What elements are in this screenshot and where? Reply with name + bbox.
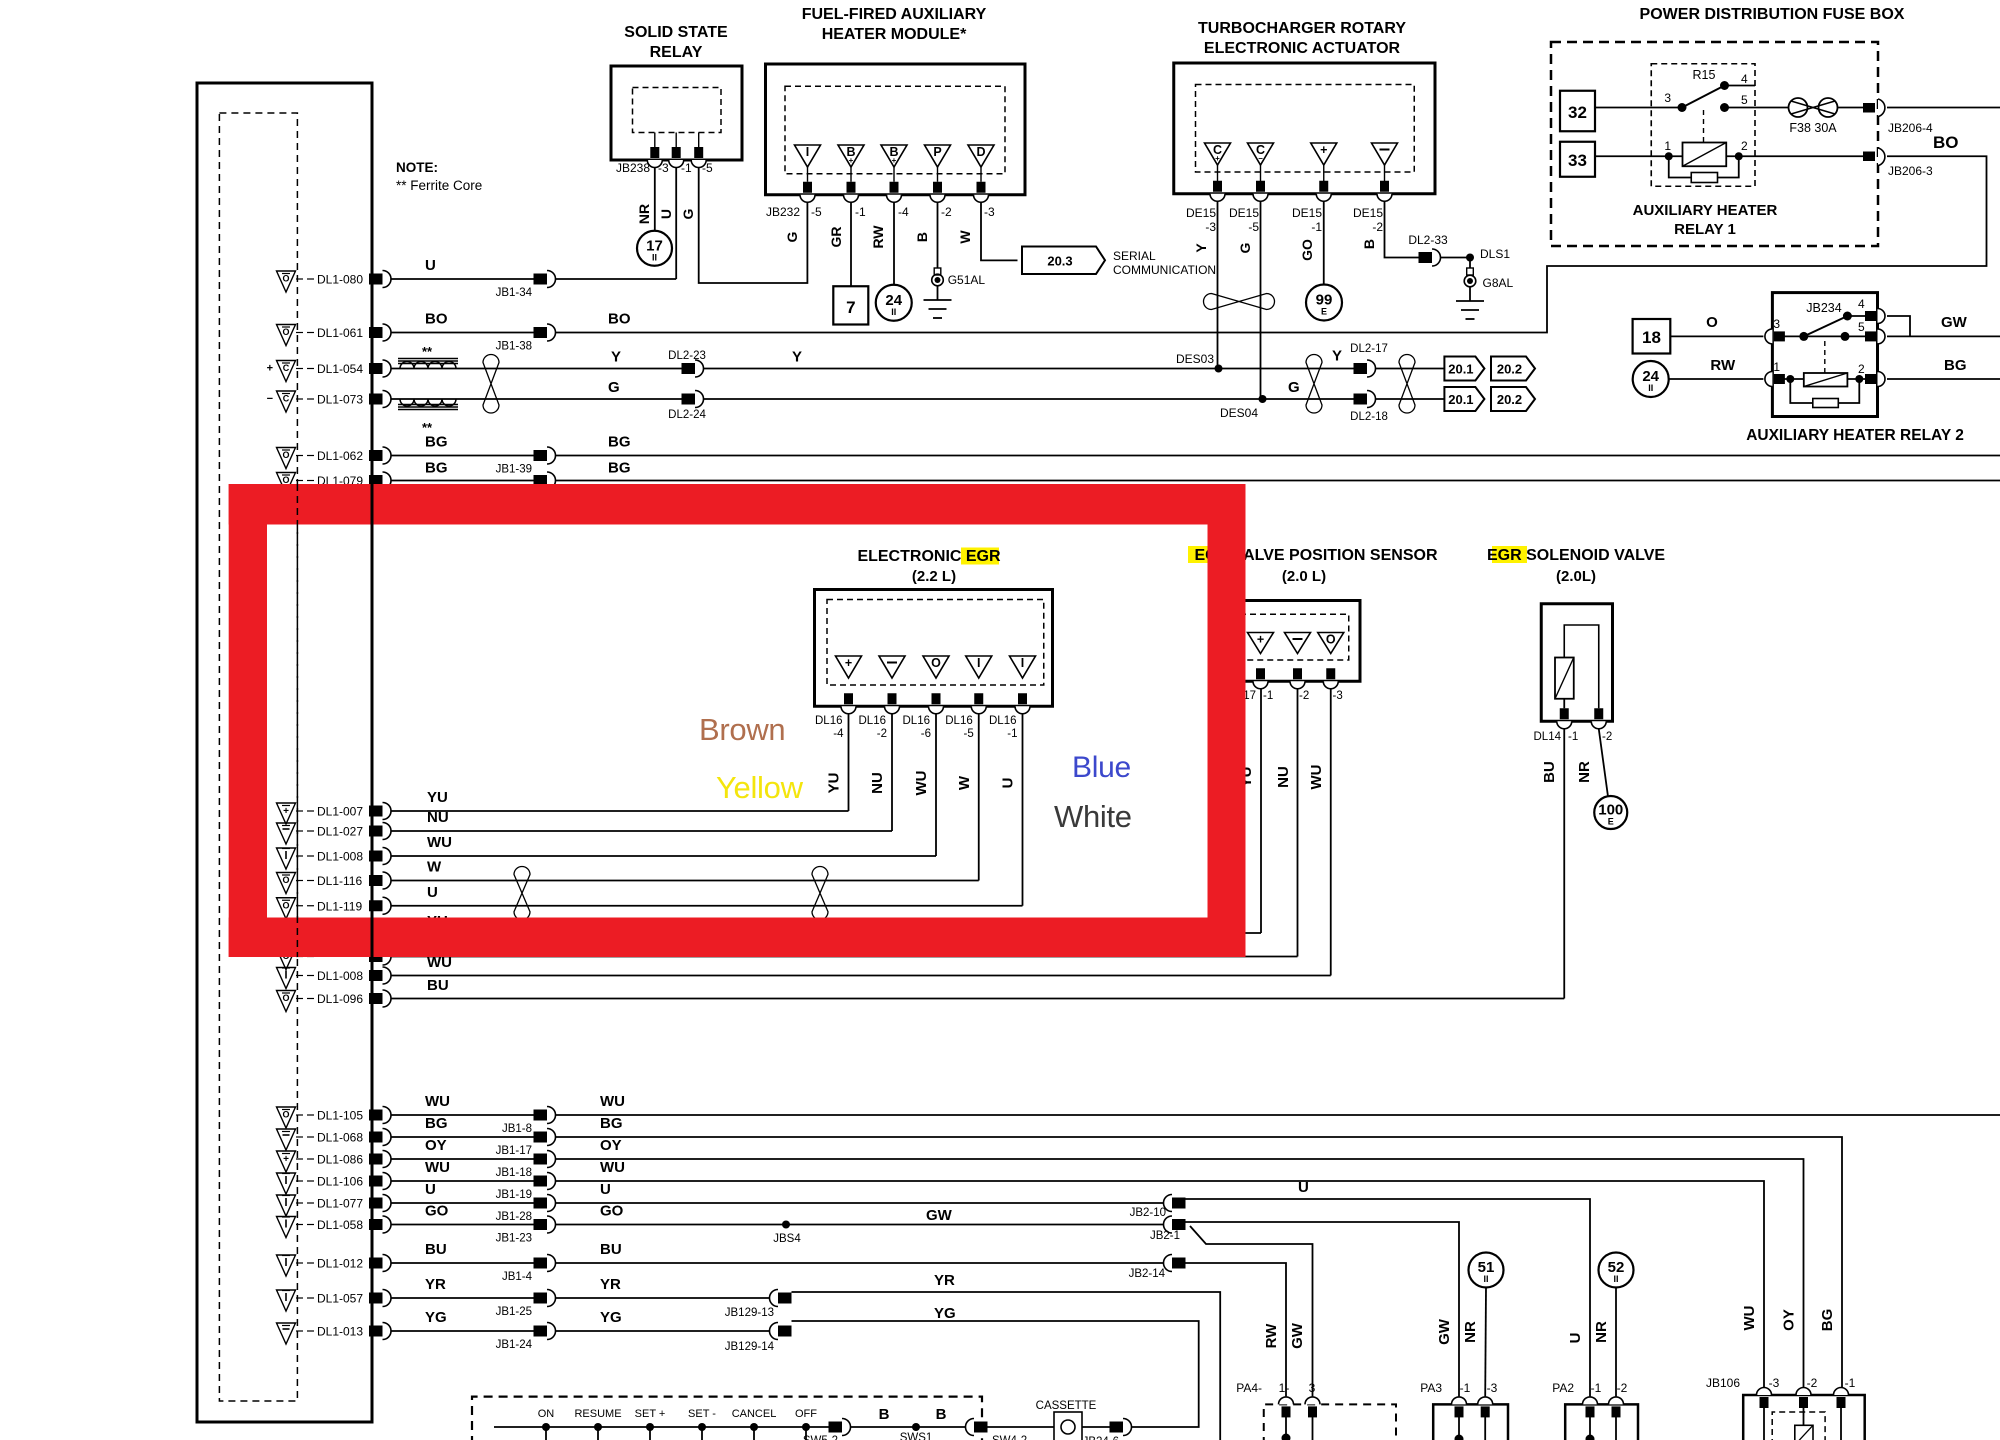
svg-text:G: G [680,208,696,219]
svg-text:OY: OY [600,1137,622,1154]
sensor symbol pin + [1248,633,1274,654]
pin triangle DL1-012 [277,1255,296,1276]
svg-text:U: U [427,884,438,901]
svg-text:AUXILIARY HEATER RELAY 2: AUXILIARY HEATER RELAY 2 [1746,427,1964,444]
svg-text:DL16: DL16 [945,715,973,727]
svg-text:U: U [1000,778,1017,789]
EGR symbol pin + [836,656,862,678]
wire U riser [1022,714,1024,906]
svg-text:DES03: DES03 [1176,352,1214,366]
svg-text:DL1-077: DL1-077 [317,1197,363,1211]
wire G DES04 to 20.1 [1263,398,1445,400]
svg-text:WU: WU [427,834,452,851]
EGR pin DL16-1 [1018,693,1027,704]
svg-text:-1: -1 [1568,731,1578,743]
wire F38 to JB206-4 [1838,107,1866,109]
svg-text:B: B [1361,239,1377,249]
wire G DL2-24 to DES04 [704,398,1263,400]
svg-text:II: II [652,252,657,262]
relay JB234 coil [1804,373,1848,387]
svg-text:OY: OY [1781,1309,1798,1331]
solenoid pin DL14-2 [1594,708,1603,719]
svg-text:5: 5 [1741,93,1748,107]
relay R15 dashed box [1651,64,1755,187]
terminal box 18 [1633,319,1671,354]
svg-text:32: 32 [1568,103,1587,122]
svg-text:GO: GO [425,1203,449,1220]
wire RW JB2-14 to PA4-1 [1186,1263,1287,1396]
svg-text:SET -: SET - [688,1408,716,1420]
wire U JB1-34 to solid state relay JB238-1 [556,278,677,280]
turbo actuator symbol pin + [1311,143,1337,165]
svg-text:3: 3 [1664,91,1671,105]
svg-text:GW: GW [926,1207,953,1224]
svg-text:I: I [806,145,809,159]
svg-text:DL1-008: DL1-008 [317,969,363,983]
svg-text:NR: NR [636,204,652,224]
svg-text:Blue: Blue [1072,751,1131,784]
PA3 pin -3 [1478,1397,1493,1405]
svg-text:O: O [282,993,289,1003]
svg-text:YR: YR [934,1272,955,1289]
sensor pin DL17-3 [1326,668,1335,679]
heater module pin JB232-3 [977,182,986,193]
connector pin DL1-106 [369,1176,383,1187]
connector pin DL1-008 [369,970,383,981]
ECM dashed boundary over red [296,484,298,957]
JB106 pin -2 [1796,1388,1811,1395]
sensor pin DL17-1 [1256,668,1265,679]
electronic EGR title highlight [961,548,999,565]
EGR symbol pin I [966,656,992,678]
svg-text:F38 30A: F38 30A [1789,121,1837,135]
connector pin DL1-116 [369,875,383,886]
svg-text:O: O [282,274,289,284]
wire WU DL1-105 right [556,1114,2000,1116]
svg-text:ON: ON [538,1408,555,1420]
EGR pin DL16-4 [844,693,853,704]
connector pin DL1-086 [369,1154,383,1165]
svg-text:JB238: JB238 [616,161,650,175]
PA4 pin 1 [1279,1397,1294,1405]
turbo actuator box [1174,63,1435,194]
pin triangle DL1-008 [277,848,296,869]
svg-text:RW: RW [870,225,886,249]
svg-text:JB129-13: JB129-13 [725,1307,774,1319]
pin triangle DL1-048 [277,925,296,946]
wire WU DL1-008 to EGR DL16 [391,855,936,857]
fuse 17 circle [637,231,672,266]
svg-text:DL1-061: DL1-061 [317,326,363,340]
wire YG JB129-14 to cruise B wire [792,1321,1199,1427]
svg-text:(2.0 L): (2.0 L) [1282,568,1326,585]
connector JB129-13 [770,1290,779,1307]
connector pin DL1-058 [369,1219,383,1230]
svg-text:-6: -6 [921,728,931,740]
wire GO DE15-1 to fuse 99 [1323,201,1325,284]
svg-text:JB2-1: JB2-1 [1150,1230,1180,1242]
svg-text:DL16: DL16 [859,715,887,727]
connector pin DL1-008 [369,851,383,862]
svg-text:-3: -3 [984,205,995,219]
svg-text:-1: -1 [855,205,866,219]
junction inside PA4 [1282,1434,1291,1440]
wire B SW5-2 to SW4-2 [851,1426,966,1428]
svg-text:BG: BG [425,1115,448,1132]
svg-text:YG: YG [934,1305,956,1322]
svg-text:B: B [936,1406,947,1423]
pin triangle DL1-106 [277,1173,296,1194]
wire NR DL14-2 to ground 100 [1599,729,1608,797]
connector JB1-25 [534,1293,548,1304]
svg-text:RESUME: RESUME [574,1408,621,1420]
svg-text:DL1-007: DL1-007 [317,805,363,819]
svg-text:DL1-013: DL1-013 [317,1325,363,1339]
connector pin DL1-028 [369,951,383,962]
svg-text:BG: BG [600,1115,623,1132]
connector pin DL1-073 [369,394,383,405]
wire BG DL1-079 right [556,480,2000,482]
svg-text:C: C [283,363,290,373]
svg-text:RELAY 1: RELAY 1 [1674,221,1736,238]
svg-text:O: O [282,1110,289,1120]
svg-text:-2: -2 [1299,690,1309,702]
svg-text:DE15: DE15 [1292,206,1322,220]
wire YR JB129-13 right [792,1292,1221,1440]
terminal box 32 [1560,91,1595,132]
connector JB24-6 [1110,1422,1124,1433]
svg-text:+: + [845,656,852,670]
svg-text:G8AL: G8AL [1483,276,1514,290]
connector JB2-10 [1164,1195,1173,1212]
wire cassette to JB24-6 [1082,1426,1110,1428]
svg-text:DL2-23: DL2-23 [668,350,706,362]
connector JB129-14 [770,1323,779,1340]
wire U JB2-10 to PA2-1 [1186,1199,1591,1396]
pin triangle DL1-013 [277,1323,296,1344]
svg-text:JB1-39: JB1-39 [496,464,532,476]
svg-text:E: E [1608,817,1614,827]
junction DES03 [1215,365,1223,373]
connector pin DL1-080 [369,274,383,285]
ref arrow 20.1 Y [1444,357,1484,381]
connector JB1-39 second [534,475,548,486]
svg-text:JB1-8: JB1-8 [502,1123,532,1135]
wire YU DL1-007 to EGR DL16 [391,810,849,812]
svg-text:WU: WU [425,1159,450,1176]
svg-text:YG: YG [600,1309,622,1326]
svg-text:+: + [1320,143,1327,157]
connector pin DL1-013 [369,1326,383,1337]
cruise switch contact RESUME [594,1423,602,1431]
connector DL2-18 [1354,394,1368,405]
relay JB234 suppression resistor [1790,379,1813,403]
svg-text:JB1-23: JB1-23 [496,1233,532,1245]
heater module pin JB232-2 [933,182,942,193]
pin triangle DL1-007 [277,803,296,824]
connector JB1-19 [534,1176,548,1187]
svg-text:W: W [956,775,973,790]
svg-text:DL1-012: DL1-012 [317,1257,363,1271]
cruise switch contact SET - [698,1423,706,1431]
svg-text:DL14: DL14 [1534,731,1562,743]
cruise switch contact CANCEL [750,1423,758,1431]
svg-text:YR: YR [425,1276,446,1293]
turbo actuator pin DE15-1 [1319,181,1328,192]
svg-text:DL2-18: DL2-18 [1350,411,1388,423]
turbo actuator pin DE15-5 [1256,181,1265,192]
electronic EGR box [815,590,1053,707]
svg-text:E: E [1321,307,1327,317]
svg-text:20.1: 20.1 [1448,392,1473,407]
connector pin DL1-062 [369,450,383,461]
wire B DE15-2 to DL2-33 [1385,201,1424,257]
svg-text:-3: -3 [1205,220,1216,234]
svg-text:DL1-106: DL1-106 [317,1175,363,1189]
wire R15 pin 2 to JB206-3 [1726,155,1865,157]
svg-text:+: + [1215,154,1220,163]
svg-text:20.2: 20.2 [1497,392,1522,407]
svg-text:Y: Y [792,349,802,366]
svg-text:BU: BU [1541,761,1558,783]
power distribution fuse box dashed outline [1551,42,1878,246]
heater module symbol pin D [968,145,994,167]
svg-text:I: I [1021,656,1024,670]
junction DLS1 [1466,254,1474,262]
junction SWS1 [912,1423,920,1431]
sensor symbol pin O [1318,633,1344,654]
sensor pin DL17-2 [1293,668,1302,679]
wire WU DL1-008 to sensor DL17-3 [391,975,1331,977]
connector JB1-34 [534,274,548,285]
svg-text:JB2-10: JB2-10 [1130,1207,1166,1219]
wire RW 24 to JB234-1 [1669,378,1764,380]
fuse F38 30A [1789,98,1808,117]
svg-text:DE15: DE15 [1229,206,1259,220]
solid state relay pin JB238-3 [654,133,656,148]
connector JB1-18 [534,1154,548,1165]
fuse 24 circle second [1633,361,1669,397]
pin triangle DL1-057 [277,1290,296,1311]
connector PA3 box [1433,1404,1508,1440]
red highlight frame [229,484,1246,525]
svg-text:1: 1 [1664,139,1671,153]
heater module pin JB232-4 [890,182,899,193]
svg-text:-1: -1 [1460,1381,1471,1395]
svg-text:BO: BO [608,311,631,328]
connector pin DL1-077 [369,1198,383,1209]
svg-text:** Ferrite Core: ** Ferrite Core [396,178,482,193]
wire G JB238-5 to JB232-5 [699,168,808,284]
svg-text:POWER DISTRIBUTION FUSE BOX: POWER DISTRIBUTION FUSE BOX [1640,6,1905,23]
wire NU DL1-027 to EGR DL16 [391,830,892,832]
connector pin DL1-057 [369,1293,383,1304]
ref arrow 20.3 serial communication [1022,247,1105,275]
svg-text:-2: -2 [1602,731,1612,743]
junction inside PA3 [1455,1435,1464,1440]
twisted pair symbol W/U left [514,867,530,920]
solid state relay pin JB238-1 [675,133,677,148]
svg-text:DL1-058: DL1-058 [317,1218,363,1232]
svg-text:+: + [283,1154,289,1165]
connector pin DL1-048 [369,928,383,939]
connector pin DL1-096 [369,993,383,1004]
svg-text:DL1-068: DL1-068 [317,1131,363,1145]
wire WU DL1-105 segment [391,1114,534,1116]
svg-text:SOLID STATE: SOLID STATE [624,24,728,41]
ECM right edge over red [371,484,374,957]
svg-text:ELECTRONIC ACTUATOR: ELECTRONIC ACTUATOR [1204,40,1401,57]
junction JBS4 [782,1221,790,1229]
svg-text:-2: -2 [1372,220,1383,234]
connector JB2-14 [1164,1255,1173,1272]
svg-text:YU: YU [427,789,448,806]
fuse 99 circle [1306,285,1342,321]
svg-text:18: 18 [1642,328,1661,347]
svg-text:20.1: 20.1 [1448,362,1473,377]
junction DES04 [1259,395,1267,403]
svg-text:BG: BG [425,460,448,477]
svg-text:PA4-: PA4- [1236,1381,1262,1395]
svg-text:JB206-3: JB206-3 [1888,164,1933,178]
svg-text:2: 2 [1858,362,1865,376]
svg-text:JB1-19: JB1-19 [496,1189,532,1201]
wire YR DL1-057 segment [391,1297,534,1299]
wire GW JB2-1 branch to PA4-3 [1190,1226,1313,1396]
svg-text:20.2: 20.2 [1497,362,1522,377]
svg-text:-2: -2 [1807,1376,1818,1390]
svg-text:U: U [1567,1333,1584,1344]
svg-text:O: O [282,875,289,885]
wire WU DL1-106 to JB106-3 [556,1181,1765,1395]
EGR valve position sensor title highlight [1188,546,1223,563]
wire O 18 to JB234-3 [1670,335,1763,337]
wire BO DL1-061 to JB1-38 [391,332,534,334]
svg-text:NR: NR [1576,761,1593,783]
wire YR DL1-057 to JB129-13 [556,1297,770,1299]
wire BU DL1-012 to JB2-14 [556,1262,1164,1264]
svg-text:Yellow: Yellow [716,770,804,805]
pin triangle DL1-061 [277,325,296,346]
wire BU DL1-012 segment [391,1262,534,1264]
wire WU riser [935,714,937,857]
wire W riser [978,714,980,881]
cruise switch common wire B [494,1426,829,1428]
wire U DL1-077 segment [391,1202,534,1204]
svg-text:RELAY: RELAY [650,44,703,61]
svg-text:DL1-073: DL1-073 [317,393,363,407]
solid state relay box [611,66,742,160]
svg-text:4: 4 [1858,297,1865,311]
svg-text:YR: YR [600,1276,621,1293]
svg-text:NU: NU [869,772,886,794]
svg-text:SWS1: SWS1 [900,1432,933,1440]
ground G8AL [1469,258,1471,269]
pin triangle DL1-079 [277,473,296,494]
svg-text:−: − [267,393,273,405]
svg-text:DL16: DL16 [815,715,843,727]
svg-text:-5: -5 [702,161,713,175]
svg-text:JB1-4: JB1-4 [502,1271,533,1283]
wire GW JB2-1 to PA3-1 [1186,1222,1460,1396]
connector JB1-28 [534,1198,548,1209]
svg-text:-5: -5 [964,728,974,740]
svg-text:7: 7 [846,298,855,317]
svg-text:WU: WU [425,1093,450,1110]
svg-text:-4: -4 [898,205,909,219]
svg-text:GW: GW [1941,314,1968,331]
svg-text:SW5-2: SW5-2 [803,1435,838,1440]
wire BG DL1-068 to JB106-1 [556,1137,1843,1395]
fuel-fired auxiliary heater module box [766,64,1026,195]
ref arrow 20.2 Y [1491,357,1535,381]
connector SW4-2 [966,1419,975,1436]
svg-text:JB234: JB234 [1806,301,1841,315]
wire W JB232-3 to 20.3 [981,202,1018,260]
svg-text:(2.0L): (2.0L) [1556,568,1596,585]
svg-text:JB129-14: JB129-14 [725,1341,775,1353]
svg-text:**: ** [422,344,433,359]
twisted pair symbol Y/G vertical [1204,294,1275,310]
wire U DL1-119 to EGR DL16 [391,905,1023,907]
wire YU riser [848,714,850,812]
svg-text:-3: -3 [1333,690,1343,702]
connector pin DL1-105 [369,1110,383,1121]
connector pin DL1-027 [369,826,383,837]
heater module symbol pin B [881,145,907,167]
ref arrow 20.2 G [1491,387,1535,411]
svg-text:R15: R15 [1693,68,1716,82]
svg-text:W: W [427,859,442,876]
svg-text:NOTE:: NOTE: [396,160,438,175]
svg-text:U: U [600,1181,611,1198]
cruise switch contact SET + [646,1423,654,1431]
fuse 52 circle [1599,1253,1634,1288]
wire Y DL1-054 row [391,368,682,370]
wire Y DL2-23 to DES03 [704,368,1219,370]
pin triangle DL1-105 [277,1107,296,1128]
svg-text:PA2: PA2 [1552,1381,1574,1395]
fuse 51 circle [1469,1253,1504,1288]
svg-text:JB1-38: JB1-38 [496,341,532,353]
svg-text:O: O [282,327,289,337]
svg-text:YG: YG [425,1309,447,1326]
wire Y DES03 to 20.1 [1219,368,1445,370]
wire NU riser [891,714,893,832]
pin triangle DL1-077 [277,1195,296,1216]
EGR valve position sensor box [1240,601,1360,682]
svg-text:NU: NU [1275,766,1292,788]
svg-text:WU: WU [600,1159,625,1176]
connector JB1-23 [534,1219,548,1230]
svg-text:DL1-119: DL1-119 [317,899,362,913]
svg-text:DL16: DL16 [903,715,931,727]
svg-text:GW: GW [1436,1318,1453,1345]
svg-text:-3: -3 [658,161,669,175]
wire G DL1-073 row [391,398,682,400]
connector pin DL1-061 [369,327,383,338]
svg-text:BG: BG [425,434,448,451]
EGR pin DL16-2 [888,693,897,704]
svg-text:G: G [1237,242,1253,253]
svg-text:DES04: DES04 [1220,406,1258,420]
svg-text:(2.2 L): (2.2 L) [912,568,956,585]
connector pin DL1-007 [369,806,383,817]
svg-text:2: 2 [1741,139,1748,153]
wire DL2-33 to DLS1 [1441,257,1471,259]
solid state relay pin JB238-5 [698,133,700,148]
EGR solenoid valve box [1541,604,1612,722]
